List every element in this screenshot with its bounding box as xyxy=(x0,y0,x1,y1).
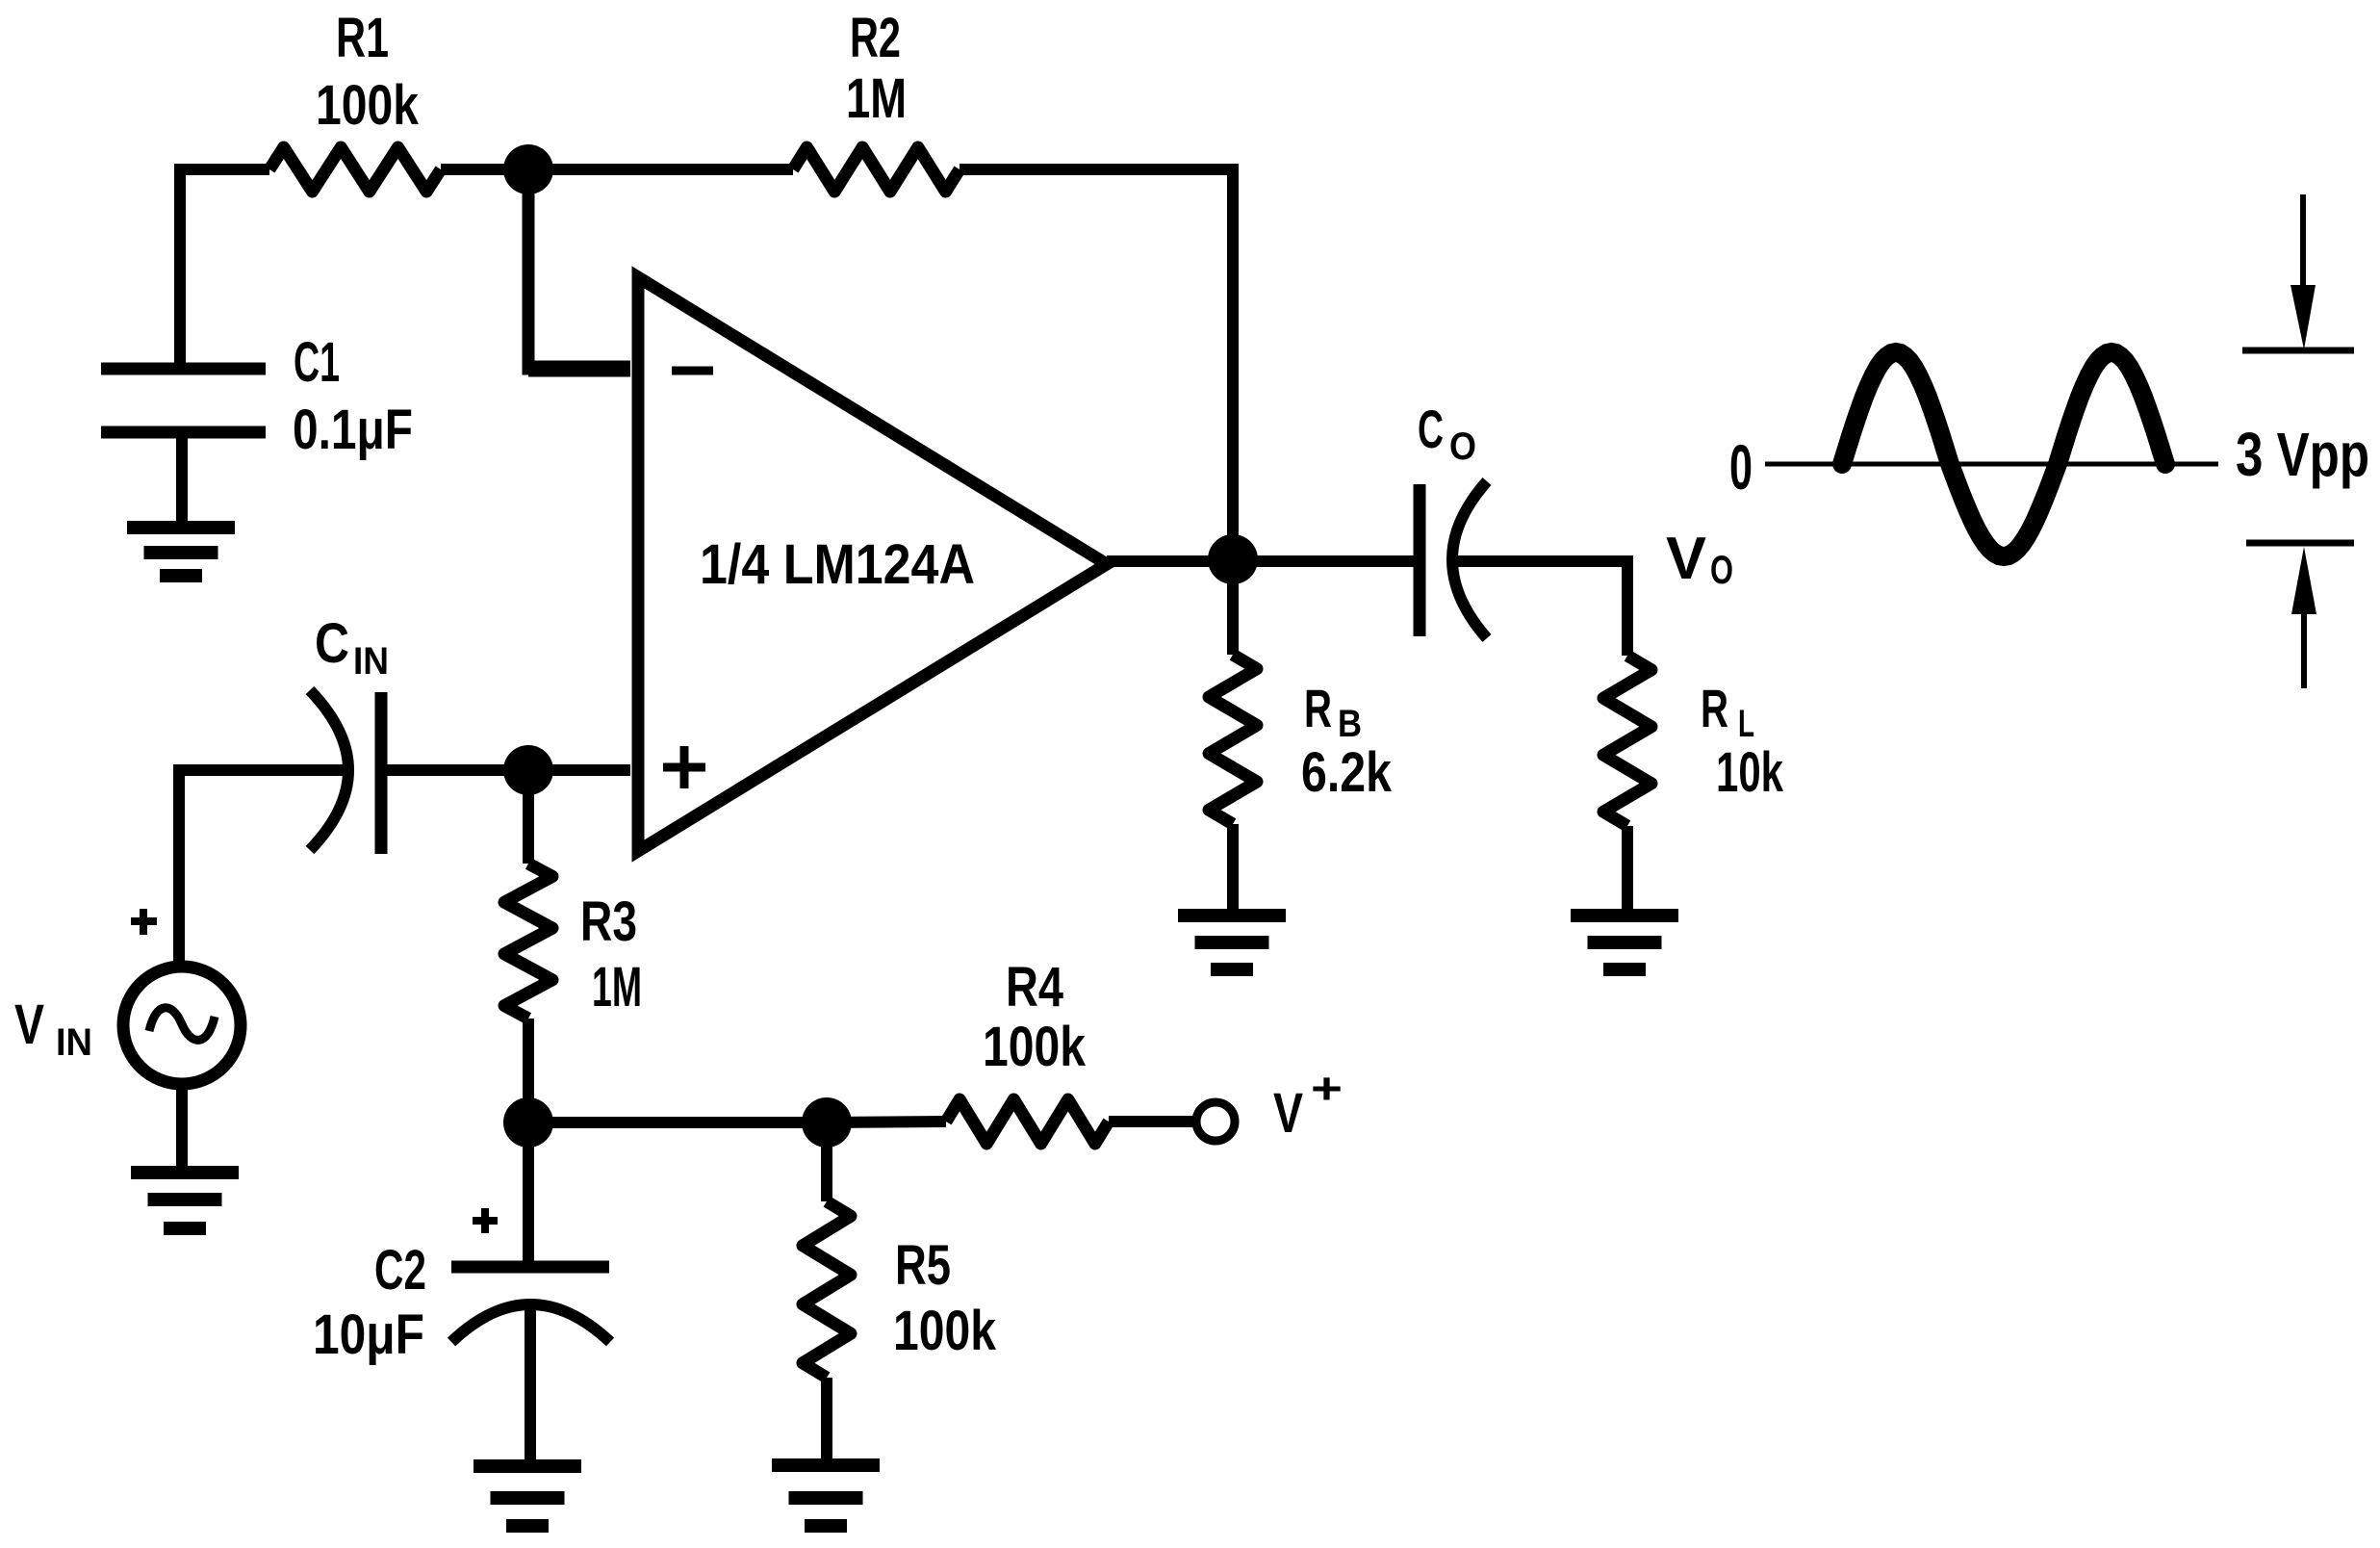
svg-text:0: 0 xyxy=(1729,431,1753,503)
node: junction of R1, R2 and inverting-input branch (dot) xyxy=(503,144,553,194)
wire: C2 to ground xyxy=(525,1306,536,1460)
svg-text:IN: IN xyxy=(353,640,389,683)
svg-text:10k: 10k xyxy=(1716,741,1784,804)
svg-text:3 Vpp: 3 Vpp xyxy=(2236,420,2369,489)
op-amp inverting input minus symbol xyxy=(672,367,713,375)
svg-text:B: B xyxy=(1338,703,1362,745)
ground below R5 xyxy=(772,1458,880,1472)
svg-text:R3: R3 xyxy=(580,890,637,953)
svg-text:R1: R1 xyxy=(336,7,389,69)
wire: junction down to C2 xyxy=(523,1122,534,1263)
wire: output node to CO xyxy=(1233,555,1414,567)
wire: R4 to V+ terminal xyxy=(1109,1116,1195,1127)
source VIN (AC source circle) xyxy=(123,967,241,1084)
dimension arrow: bottom (up arrow to trough level) xyxy=(2246,540,2354,547)
capacitor CIN curved plate xyxy=(310,690,348,850)
wire: R1 to R2 top rail segment xyxy=(441,164,793,175)
capacitor C2 curved bottom plate xyxy=(451,1304,610,1342)
svg-text:C2: C2 xyxy=(374,1239,426,1302)
source VIN plus polarity mark xyxy=(131,917,157,925)
wire: R2 to output node (feedback right drop) xyxy=(960,169,1233,539)
ground below C2 xyxy=(473,1459,581,1473)
svg-text:0.1μF: 0.1μF xyxy=(293,399,413,461)
terminal V+ (open circle) xyxy=(1196,1102,1235,1141)
svg-text:1M: 1M xyxy=(846,67,907,130)
ground below VIN xyxy=(131,1166,239,1179)
resistor RB xyxy=(1209,655,1257,824)
waveform output sine (3 Vpp) xyxy=(1842,352,2165,556)
op-amp non-inverting input plus symbol xyxy=(663,763,705,772)
wire: op-amp output to output node xyxy=(1107,555,1233,567)
svg-text:1M: 1M xyxy=(592,956,642,1019)
wire: junction to R3 xyxy=(523,770,534,864)
dimension arrow: top (down arrow to peak level) xyxy=(2300,194,2306,289)
svg-text:C: C xyxy=(1418,399,1444,459)
svg-text:R: R xyxy=(1304,678,1332,738)
capacitor C1 (top plate) xyxy=(101,363,266,375)
wire: bottom rail junction to R4/R5 junction xyxy=(528,1117,827,1128)
svg-text:O: O xyxy=(1710,547,1733,592)
capacitor C1 (bottom plate) xyxy=(101,426,266,439)
svg-text:R: R xyxy=(1701,678,1728,738)
node: junction CIN / R3 (dot) xyxy=(503,745,553,795)
svg-text:6.2k: 6.2k xyxy=(1301,741,1393,804)
svg-text:R5: R5 xyxy=(895,1234,951,1297)
capacitor CIN straight plate xyxy=(375,692,388,854)
svg-text:L: L xyxy=(1738,703,1754,745)
ground below RB xyxy=(1178,909,1286,922)
wire: output node down to RB xyxy=(1227,559,1239,655)
capacitor C2 straight top plate xyxy=(451,1261,609,1274)
svg-text:1/4 LM124A: 1/4 LM124A xyxy=(700,533,975,596)
wire: junction down and into inverting input xyxy=(528,169,630,369)
svg-text:C1: C1 xyxy=(294,331,340,394)
waveform zero reference line xyxy=(1765,462,2218,467)
op-amp U1 (1/4 LM124A) triangle xyxy=(638,277,1107,851)
resistor R3 xyxy=(504,864,552,1019)
wire: R5 to ground xyxy=(821,1378,832,1460)
svg-text:100k: 100k xyxy=(316,74,420,137)
wire: VIN to ground xyxy=(176,1084,188,1167)
resistor R4 xyxy=(946,1099,1109,1144)
source VIN sine symbol xyxy=(149,1008,215,1041)
wire: R3 to bottom junction xyxy=(523,1019,534,1122)
node: junction R4 / R5 (dot) xyxy=(802,1097,852,1148)
wire: RB to ground xyxy=(1227,824,1239,909)
wire: left rail from top wire down to C1 xyxy=(180,169,269,366)
svg-text:C: C xyxy=(315,612,349,675)
wire: VIN top corner to CIN curved plate xyxy=(179,770,345,961)
wire: CIN to non-inverting input xyxy=(381,764,630,776)
svg-text:R4: R4 xyxy=(1006,956,1063,1019)
wire: RL to ground xyxy=(1622,826,1633,910)
resistor R2 xyxy=(793,147,960,192)
svg-text:100k: 100k xyxy=(893,1300,997,1362)
svg-text:IN: IN xyxy=(56,1021,92,1064)
node: junction R3 / C2 / R4 rail (dot) xyxy=(503,1097,553,1148)
capacitor CO curved plate xyxy=(1452,481,1487,638)
wire: junction to R4 xyxy=(827,1122,946,1122)
svg-text:O: O xyxy=(1449,426,1476,468)
ground below RL xyxy=(1571,909,1678,922)
svg-text:R2: R2 xyxy=(850,7,901,69)
resistor R1 xyxy=(269,147,441,192)
wire: junction down to R5 xyxy=(821,1122,832,1201)
capacitor CO straight plate xyxy=(1414,484,1426,636)
svg-text:+: + xyxy=(1311,1064,1343,1113)
resistor R5 xyxy=(803,1201,851,1378)
svg-text:V: V xyxy=(1666,526,1706,592)
resistor RL xyxy=(1603,656,1651,826)
wire: C1 bottom plate to ground xyxy=(176,432,188,522)
svg-text:10μF: 10μF xyxy=(313,1303,424,1366)
svg-text:100k: 100k xyxy=(983,1016,1087,1078)
svg-text:V: V xyxy=(1273,1082,1303,1145)
ground below C1 xyxy=(127,521,235,534)
svg-text:V: V xyxy=(14,993,44,1056)
capacitor C2 plus polarity mark xyxy=(473,1217,498,1225)
wire: CO to RL corner xyxy=(1452,561,1627,656)
node: output junction (dot) xyxy=(1208,534,1258,584)
